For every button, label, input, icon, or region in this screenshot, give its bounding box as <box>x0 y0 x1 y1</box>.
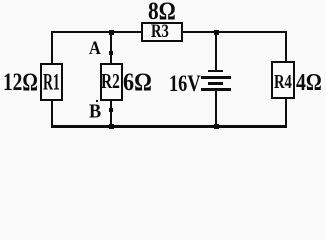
resistor R1 <box>40 63 64 101</box>
junction: top bus / battery branch <box>214 30 219 35</box>
resistor R4 <box>271 61 295 100</box>
junction: bottom bus / battery branch <box>214 124 219 129</box>
wire: R4 bottom lead <box>285 99 287 127</box>
resistor R3 <box>141 22 184 42</box>
wire: node A branch upper lead <box>110 33 112 63</box>
node B <box>109 108 114 113</box>
wire: right branch vertical (top corner down to R4) <box>285 31 287 61</box>
battery 16V : long plate 1 <box>201 76 231 79</box>
stray dash left of R2 bottom corner <box>96 100 99 102</box>
battery 16V : short plate 2 <box>208 82 223 85</box>
node A <box>109 51 113 55</box>
wire: R1 bottom lead <box>51 101 53 128</box>
wire: R2 bottom lead <box>110 101 112 128</box>
wire: left branch vertical (top corner down to R1) <box>51 31 53 63</box>
wire: top bus, left segment <box>51 31 141 33</box>
junction: top bus / node-A branch <box>109 30 114 35</box>
label 4Ω <box>296 70 322 94</box>
wire: top bus, right segment <box>183 31 287 33</box>
label 6Ω <box>123 69 152 94</box>
label 12Ω <box>3 69 38 94</box>
label A <box>89 39 101 58</box>
wire: battery top lead <box>215 33 217 70</box>
label B <box>89 102 101 122</box>
wire: bottom bus <box>51 125 287 128</box>
battery 16V : long plate 2 <box>201 88 231 91</box>
label 8Ω <box>148 0 176 23</box>
battery 16V : short plate 1 <box>208 70 223 72</box>
resistor R2 <box>100 63 123 101</box>
label 16V <box>169 72 201 95</box>
wire: battery bottom lead <box>215 91 217 127</box>
junction: bottom bus / node-B branch <box>109 124 114 129</box>
